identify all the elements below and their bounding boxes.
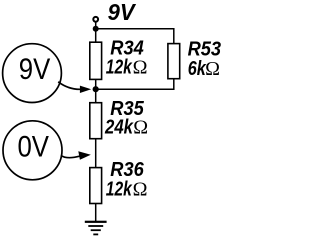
svg-text:9V: 9V [108, 0, 137, 25]
svg-text:24k: 24k [104, 117, 134, 139]
svg-text:12k: 12k [106, 178, 133, 200]
svg-text:Ω: Ω [133, 57, 148, 79]
svg-text:Ω: Ω [133, 117, 148, 139]
svg-text:6k: 6k [188, 58, 207, 80]
svg-text:Ω: Ω [133, 178, 148, 200]
svg-text:9V: 9V [19, 53, 51, 86]
svg-text:0V: 0V [17, 131, 49, 164]
svg-text:12k: 12k [106, 57, 133, 79]
svg-text:Ω: Ω [205, 58, 220, 80]
